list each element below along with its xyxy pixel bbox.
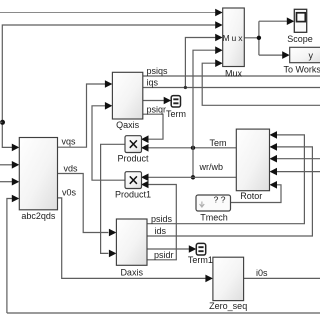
arrow into Zero_seq [205, 275, 213, 283]
block Term1 (terminator) [196, 243, 205, 255]
wire psiqs to right edge [143, 75, 320, 77]
svg-text:abc2qds: abc2qds [21, 211, 56, 221]
block abc2qds [19, 138, 57, 210]
block Rotor [236, 129, 269, 191]
wire Rotor input 4 from right edge [277, 171, 320, 173]
wire Tem from Rotor to Product input 2 [148, 147, 236, 149]
svg-text:Zero_seq: Zero_seq [209, 301, 247, 311]
wire psidr to Product1 input 2 [147, 185, 176, 260]
arrow into abc2qds input 1 [12, 144, 19, 152]
svg-text:psiqr: psiqr [147, 104, 167, 114]
wire Mux input 2 / left vertical bus [2, 25, 216, 147]
node A junction dot on left bus [0, 120, 5, 125]
svg-text:? ?: ? ? [214, 194, 226, 204]
svg-text:Mux: Mux [222, 33, 244, 43]
svg-text:wr/wb: wr/wb [199, 162, 224, 172]
node wr/wb junction dot [191, 175, 195, 179]
svg-text:ids: ids [155, 226, 167, 236]
node iqs junction dot [184, 86, 187, 89]
arrow into Scope [287, 17, 295, 25]
wire psiqr to Product input 1 [143, 114, 163, 139]
block Tmech [196, 195, 231, 211]
arrow into Mux input 5 [215, 59, 223, 67]
svg-text:psidr: psidr [154, 250, 174, 260]
arrow into Product input 2 (left pointing) [141, 144, 149, 152]
arrow into Product1 input 1 (left pointing) [141, 174, 149, 182]
wire v0s to Zero_seq input [58, 198, 207, 279]
svg-text:y: y [309, 50, 314, 60]
wire Mux input 4 riser [193, 50, 216, 177]
svg-text:To Workspa: To Workspa [284, 65, 320, 75]
svg-text:Tmech: Tmech [200, 213, 228, 223]
arrow into Mux input 2 [215, 21, 223, 29]
svg-text:Scope: Scope [287, 34, 313, 44]
arrow into abc2qds input 2 [12, 161, 19, 169]
svg-text:psiqs: psiqs [147, 66, 169, 76]
wire vds to Daxis input 1 [58, 174, 109, 233]
wire ids to Rotor input 2 [147, 147, 312, 236]
block To Workspace (y) [290, 47, 320, 62]
wire bottom bus [7, 312, 320, 314]
arrow into To Workspace [282, 51, 290, 59]
svg-text:Product: Product [117, 154, 149, 164]
svg-text:Product1: Product1 [115, 190, 151, 200]
block Daxis [116, 219, 147, 265]
block Zero_seq [213, 257, 244, 300]
arrow into Rotor input 3 (left pointing) [270, 155, 278, 163]
svg-text:Daxis: Daxis [120, 268, 143, 278]
wire Qaxis output 3 to Term [143, 100, 165, 102]
wire Mux output branch [244, 21, 288, 55]
wire Product1 output to Qaxis input 2 [92, 106, 125, 180]
wire Mux input 5 from right edge [202, 63, 320, 105]
arrow into Term [164, 97, 172, 105]
svg-text:Rotor: Rotor [240, 191, 262, 201]
wire iqs to right edge [143, 87, 320, 89]
arrow into Mux input 3 [215, 34, 223, 42]
wire Rotor input 3 from right edge [277, 158, 320, 160]
arrow into Product1 input 2 (left pointing) [141, 181, 149, 189]
svg-text:iqs: iqs [147, 78, 159, 88]
wire abc2qds input 4 from bottom bus [7, 199, 12, 314]
wire Tmech to Rotor input 5 [231, 185, 282, 203]
block Product [125, 136, 142, 153]
arrow into Rotor input 1 (left pointing) [270, 131, 278, 139]
wire stub at left edge node A [0, 121, 2, 123]
block Mux [223, 8, 245, 67]
wire wr/wb from Rotor to Product1 input 1 [148, 176, 236, 178]
svg-text:i0s: i0s [256, 268, 268, 278]
svg-text:Term1: Term1 [188, 255, 213, 265]
wire abc2qds input 3 [0, 181, 12, 183]
block Term (terminator) [171, 96, 180, 107]
block Scope [294, 9, 306, 32]
wire Daxis output 3 to Term1 [147, 248, 190, 250]
arrow into Rotor input 2 (left pointing) [270, 143, 278, 151]
arrow into Product input 1 (left pointing) [141, 135, 149, 143]
block Qaxis [112, 72, 142, 119]
arrow into Rotor input 4 (left pointing) [270, 168, 278, 176]
arrow into Rotor input 5 (left pointing) [270, 181, 278, 189]
wire Product output to Daxis input 2 [101, 144, 125, 253]
arrow into abc2qds input 3 [12, 178, 19, 186]
arrow into Term1 [189, 245, 197, 253]
svg-text:vds: vds [64, 164, 79, 174]
svg-text:Mux: Mux [225, 69, 243, 79]
svg-text:psids: psids [151, 214, 173, 224]
svg-text:Qaxis: Qaxis [116, 120, 140, 130]
wire i0s to right edge [244, 277, 320, 279]
block Product1 [125, 172, 142, 189]
arrow into Mux input 4 [215, 46, 223, 54]
svg-text:v0s: v0s [62, 188, 77, 198]
node Mux output junction dot [257, 36, 261, 40]
svg-text:Tem: Tem [210, 138, 227, 148]
wire vqs to Qaxis input 1 [58, 84, 106, 147]
arrow into Qaxis input 1 [105, 80, 113, 88]
arrow into Daxis input 1 [109, 229, 117, 237]
arrow into Daxis input 2 [109, 250, 117, 258]
arrow into Qaxis input 2 [105, 102, 113, 110]
wire Mux input 1 from left edge [0, 12, 216, 14]
wire abc2qds input 2 [0, 164, 12, 166]
node Tem junction dot [191, 146, 195, 150]
wire psids to Rotor input 1 [147, 135, 304, 224]
svg-text:vqs: vqs [62, 137, 77, 147]
arrow into abc2qds input 4 [12, 195, 19, 203]
wire Mux input 3 riser from iqs [185, 38, 216, 88]
arrow into Mux input 1 [215, 9, 223, 17]
svg-text:Term: Term [166, 109, 186, 119]
